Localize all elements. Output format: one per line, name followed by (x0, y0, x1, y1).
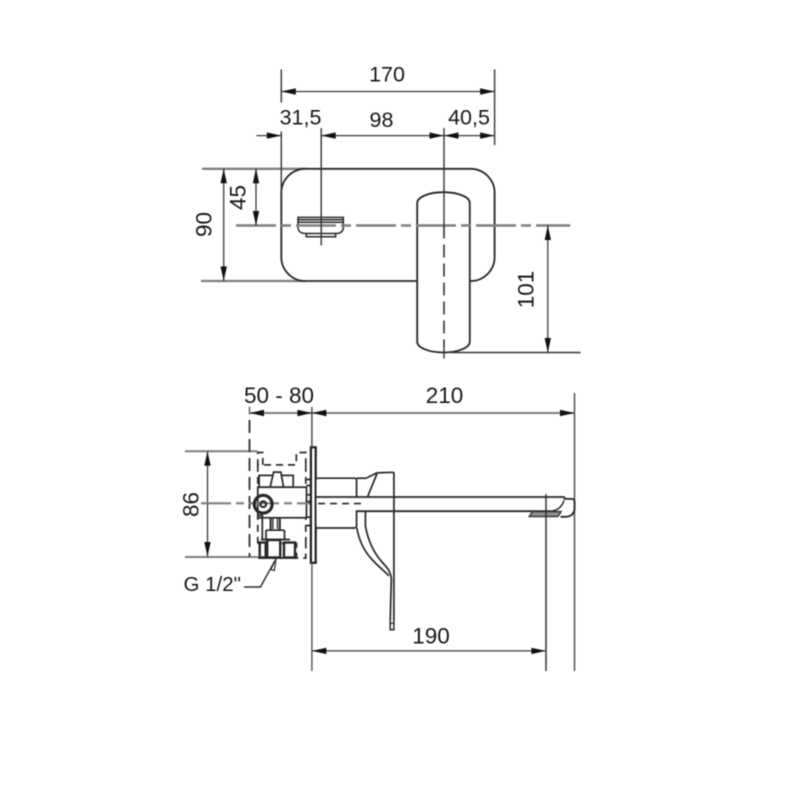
svg-text:86: 86 (179, 492, 204, 517)
svg-text:190: 190 (412, 624, 450, 649)
svg-text:210: 210 (426, 383, 464, 408)
svg-text:G 1/2": G 1/2" (184, 573, 241, 596)
svg-text:90: 90 (192, 212, 217, 237)
svg-text:40,5: 40,5 (448, 106, 490, 130)
svg-text:101: 101 (514, 271, 539, 309)
svg-text:31,5: 31,5 (280, 106, 322, 130)
svg-text:98: 98 (370, 108, 394, 132)
svg-text:50 - 80: 50 - 80 (244, 383, 314, 408)
svg-text:170: 170 (369, 63, 405, 87)
svg-text:45: 45 (226, 185, 251, 210)
